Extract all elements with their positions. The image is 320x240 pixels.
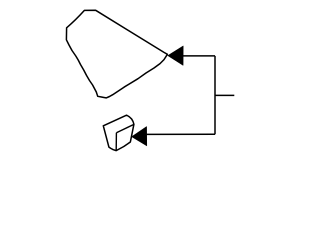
component box inner edge P-C	[116, 124, 133, 132]
arrowhead A1 (into cloud shape)	[168, 46, 184, 66]
arrowhead A2 (into 3D box)	[132, 127, 147, 146]
component box (3D box outline)	[103, 115, 134, 150]
wire top horizontal segment	[183, 55, 215, 57]
cloud shape (free-form blob node)	[66, 10, 167, 98]
stub wire (tick on vertical wire)	[215, 94, 234, 96]
wire bottom horizontal segment	[147, 133, 215, 135]
wire vertical segment	[214, 56, 216, 134]
component box inner edge P-F	[115, 133, 117, 151]
